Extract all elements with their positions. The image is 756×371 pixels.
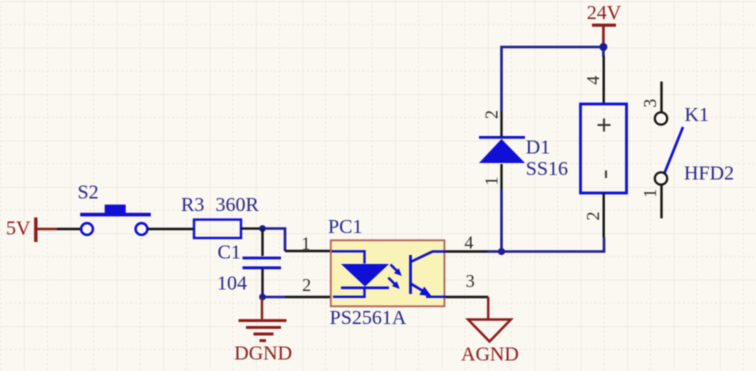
svg-text:C1: C1 [218,242,241,264]
wire node B to PC1 pin2 [263,296,333,299]
resistor R3 [181,194,260,238]
optocoupler PC1 body [328,216,444,329]
wire D1 bottom to node C [500,190,503,252]
svg-text:1: 1 [640,189,660,198]
capacitor C1 [217,229,281,298]
wire node A to PC1 pin1 [263,229,332,252]
PC1 phototransistor [411,252,447,297]
wire node C to relay coil elbow [502,238,605,252]
wire D1 top to 24V rail [502,47,604,111]
power port 5V [6,218,57,243]
svg-text:4: 4 [583,76,603,85]
power 24V [587,2,622,45]
svg-text:3: 3 [466,271,475,291]
svg-text:4: 4 [464,233,473,253]
svg-text:24V: 24V [587,2,622,24]
wire R3 to node A [241,227,260,229]
svg-text:DGND: DGND [234,343,292,365]
wire PC1 pin3 to AGND [446,296,488,298]
svg-text:2: 2 [302,275,311,295]
wire 5V port to S2 [57,228,81,230]
node C junction [498,248,505,255]
svg-text:S2: S2 [78,182,99,204]
wire S2 to R3 [147,228,194,230]
svg-text:D1: D1 [526,137,550,159]
ground AGND [461,297,519,365]
wire PC1 pin4 to node C [446,250,502,252]
PC1 light arrows [388,265,402,290]
svg-text:HFD2: HFD2 [684,163,734,185]
svg-text:AGND: AGND [461,343,519,365]
svg-text:2: 2 [481,110,501,119]
svg-text:K1: K1 [685,104,709,126]
svg-text:PS2561A: PS2561A [330,307,407,329]
svg-text:SS16: SS16 [526,158,568,180]
svg-text:360R: 360R [216,194,260,216]
node A junction [259,225,266,232]
relay contact K1 [655,82,734,219]
node D junction at 24V [599,43,607,51]
svg-text:1: 1 [481,177,501,186]
svg-text:R3: R3 [181,194,204,216]
switch S2 [78,182,151,235]
relay coil K1 [581,47,627,238]
node B junction [259,294,266,301]
svg-text:104: 104 [217,273,247,295]
PC1 LED [332,251,390,296]
svg-text:3: 3 [640,99,660,108]
ground DGND [234,298,292,365]
svg-text:1: 1 [301,234,310,254]
svg-text:2: 2 [583,212,603,221]
svg-text:PC1: PC1 [328,216,362,238]
svg-text:5V: 5V [6,218,31,240]
diode D1 [479,111,568,190]
